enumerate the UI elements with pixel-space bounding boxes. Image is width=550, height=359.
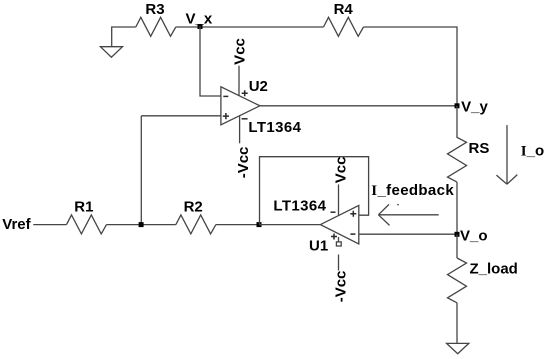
wire V_o to Z_load	[456, 234, 458, 258]
ground GND1 (left, near R3)	[100, 47, 122, 58]
svg-text:R4: R4	[334, 1, 354, 18]
node A junction dot (R1/R2/feedback)	[139, 222, 144, 227]
node B junction dot (R2/U1 output/feedback box)	[257, 222, 262, 227]
node V_o junction dot	[455, 232, 460, 237]
svg-text:Vcc: Vcc	[232, 38, 249, 65]
U1 bottom supply wire to -Vcc	[338, 255, 340, 271]
U1 inverting input marker - (bottom)	[350, 233, 355, 235]
wire RS bottom to V_o	[456, 182, 458, 234]
svg-text:LT1364: LT1364	[273, 197, 326, 214]
annotation arrow I_feedback (leftward)	[378, 204, 438, 225]
resistor R2	[176, 215, 216, 234]
svg-text:V_x: V_x	[186, 11, 213, 28]
node V_y junction dot	[455, 103, 460, 108]
U2 negative supply pin wire	[239, 116, 241, 143]
U2 non-inverting input marker +	[223, 113, 229, 119]
annotation arrow I_o (downward)	[496, 125, 517, 184]
svg-text:LT1364: LT1364	[248, 119, 301, 136]
svg-text:R1: R1	[74, 198, 93, 215]
U1 top supply pin wire (Vcc)	[338, 184, 340, 215]
resistor R4	[324, 17, 364, 36]
svg-text:R2: R2	[184, 198, 203, 215]
wire R1 to node A to R2	[107, 224, 176, 226]
wire R2 to node B	[216, 224, 259, 226]
U2 positive supply pin wire	[238, 66, 240, 96]
U2 negative supply marker -	[242, 118, 248, 120]
wire Z_load to ground	[456, 303, 458, 344]
svg-text:RS: RS	[469, 140, 490, 157]
wire U2 output to V_y	[260, 105, 457, 107]
svg-text:Vref: Vref	[2, 216, 31, 233]
wire node B to U1 output	[259, 224, 320, 226]
U2 inverting input marker -	[223, 95, 228, 97]
U1 bottom supply pin stub	[338, 237, 340, 242]
resistor R3	[136, 17, 176, 36]
svg-text:-Vcc: -Vcc	[332, 271, 349, 303]
svg-text:Vcc: Vcc	[332, 156, 349, 183]
op-amp U1 (mirrored, pointing left)	[320, 205, 358, 244]
annotation dot near I_feedback arrow	[397, 204, 399, 206]
U1 unconnected pin square	[336, 242, 341, 246]
U1 bottom supply marker +	[331, 234, 337, 240]
U2 positive supply marker +	[242, 90, 248, 96]
U1 non-inverting input marker + (top)	[350, 211, 356, 217]
svg-text:-Vcc: -Vcc	[235, 147, 252, 179]
wire R4 right to top-right corner down to V_y	[364, 27, 458, 106]
wire Vref to R1	[33, 224, 66, 226]
wire ground stub to R3 left	[112, 27, 136, 47]
svg-text:U2: U2	[249, 78, 268, 95]
resistor RS (vertical)	[448, 106, 467, 182]
ground GND2 (bottom right)	[447, 343, 469, 353]
svg-text:Z_load: Z_load	[470, 260, 518, 277]
wire U2 non-inverting input to node A	[141, 115, 221, 117]
svg-text:V_o: V_o	[460, 227, 488, 244]
svg-text:R3: R3	[145, 1, 164, 18]
svg-text:V_y: V_y	[461, 99, 488, 116]
wire feedback box (node B up, over, down to U1 + input)	[260, 157, 369, 225]
resistor R1	[67, 215, 107, 234]
wire V_x down to U2 inverting input	[200, 26, 221, 96]
svg-text:I_o: I_o	[521, 143, 544, 160]
op-amp U2	[221, 87, 260, 125]
node V_x junction dot	[198, 24, 203, 29]
wire R3 to V_x to R4 (top rail)	[176, 26, 324, 28]
wire U1 inverting input to V_o	[359, 233, 457, 235]
wire node A feedback vertical	[140, 116, 142, 225]
svg-text:U1: U1	[309, 237, 328, 254]
U1 top supply marker -	[331, 211, 336, 213]
svg-text:I_feedback: I_feedback	[371, 182, 454, 199]
resistor Z_load (vertical)	[448, 258, 467, 303]
